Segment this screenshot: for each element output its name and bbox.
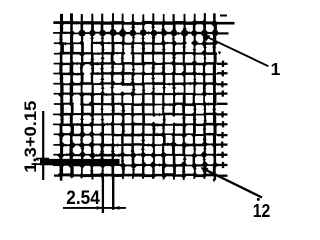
mesh horizontal line H5 [54, 62, 217, 66]
mesh vertical line V9 [141, 14, 146, 178]
mesh horizontal line H13 [53, 143, 216, 148]
dimension extension line (vertical) for 1,3+0.15 [42, 111, 44, 180]
mesh vertical line V5 [100, 14, 105, 181]
mesh vertical line V10 [151, 13, 156, 179]
mesh vertical line V16 [212, 13, 217, 180]
mesh horizontal line H9 [54, 102, 217, 106]
mesh vertical line V4 [90, 14, 95, 180]
svg-text:1: 1 [271, 59, 281, 79]
mesh vertical line V13 [182, 14, 187, 180]
mesh horizontal line H3 [54, 41, 217, 45]
mesh horizontal line H10 [53, 113, 217, 117]
mesh vertical line V14 [193, 14, 197, 179]
mesh vertical line V7 [121, 14, 126, 180]
mesh vertical line V2 [69, 13, 74, 176]
leader 12 end dot [257, 198, 260, 201]
stray scan dot near leader 1 [218, 51, 221, 55]
dimension arrow right (pointing left) [113, 206, 119, 210]
mesh horizontal line H8 [54, 92, 217, 96]
mesh vertical line V11 [161, 14, 166, 179]
mesh vertical line V15 [203, 13, 207, 179]
leader line for callout 1 [205, 36, 269, 66]
copper strip (1.3 mm wide row) [40, 159, 120, 165]
dimension tick lower edge of strip [32, 163, 50, 165]
svg-text:1,3+0.15: 1,3+0.15 [22, 101, 40, 173]
mesh horizontal line H2 [53, 31, 217, 35]
dimension line for 2.54 [63, 207, 126, 209]
mesh vertical line V1 [59, 14, 64, 181]
mesh horizontal line H15 [53, 163, 217, 167]
mesh intersection solder-pad blobs [57, 19, 218, 179]
mesh vertical line V6 [110, 13, 115, 180]
dimension arrow left (pointing right) [97, 206, 103, 210]
leader arrowhead for callout 1 [203, 35, 211, 42]
dimension extension line right (col 6) [112, 176, 114, 210]
partial right edge column of pads [216, 16, 235, 176]
mesh vertical line V3 [80, 14, 85, 178]
mesh horizontal line H7 [53, 82, 216, 86]
mesh vertical line V12 [172, 14, 176, 180]
dimension extension line left (col 5) [102, 176, 104, 213]
mesh horizontal line H12 [54, 133, 217, 137]
leader line for callout 12 [203, 168, 263, 197]
mesh horizontal line H6 [53, 72, 217, 76]
mesh vertical line V8 [131, 14, 136, 179]
dimension tick upper edge of strip [36, 158, 49, 160]
mesh horizontal line H11 [53, 123, 217, 127]
stray scan dot under leader 12 [213, 179, 216, 183]
svg-text:12: 12 [253, 201, 270, 221]
mesh horizontal line H1 [53, 21, 217, 25]
mesh horizontal line H16 [54, 173, 217, 177]
mesh horizontal line H14 [53, 153, 217, 157]
leader arrowhead for callout 12 [201, 167, 209, 174]
svg-text:2.54: 2.54 [66, 188, 100, 209]
mesh horizontal line H4 [54, 52, 217, 56]
